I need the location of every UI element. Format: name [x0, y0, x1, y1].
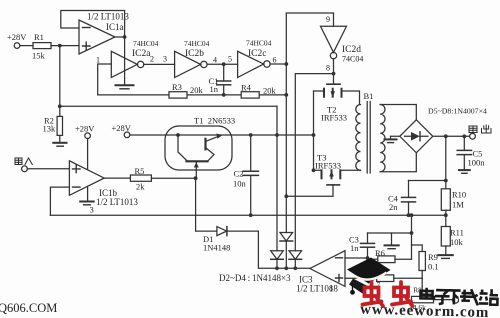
node C1 top junction — [222, 62, 226, 66]
wire pin8 left and down (to D4) — [295, 74, 333, 251]
char zhan — [479, 289, 498, 305]
wire T2 gate lead — [333, 74, 335, 84]
wire branch vertical — [411, 215, 413, 259]
node pin6 junction — [284, 62, 288, 66]
char zi — [435, 290, 450, 304]
node C5 top junction — [462, 134, 466, 138]
ground mid-rail under IC2a — [116, 84, 134, 86]
resistor R1 — [33, 43, 51, 49]
wire IC2c out to node — [270, 63, 286, 65]
char dian — [420, 288, 434, 299]
node D2 bottom junction — [275, 266, 279, 270]
wire IC1b ground pin — [87, 186, 89, 201]
svg-text:1M: 1M — [452, 200, 464, 210]
resistor R11 — [445, 215, 447, 226]
svg-text:2k: 2k — [136, 182, 145, 192]
wire R8 to terminal — [434, 299, 453, 301]
label output (CJK drawn) — [469, 125, 491, 133]
svg-text:100n: 100n — [468, 158, 486, 168]
svg-text:20k: 20k — [263, 86, 277, 96]
transistor T1 internals — [178, 134, 223, 179]
svg-text:IRF533: IRF533 — [315, 161, 341, 171]
wire R5 to T1 emitter node — [151, 177, 195, 179]
svg-text:0.1: 0.1 — [428, 262, 439, 272]
svg-text:R9: R9 — [428, 252, 438, 262]
svg-text:+28V: +28V — [7, 32, 27, 42]
wire +28V to R1 — [20, 45, 33, 47]
svg-text:IC2b: IC2b — [185, 49, 204, 59]
op-amp U IC1a — [79, 20, 115, 54]
svg-text:R3: R3 — [172, 82, 182, 92]
capacitor C4 — [402, 181, 446, 216]
wire IC3 - input to C3/R6 node — [345, 257, 368, 259]
node C2 top junction — [249, 133, 253, 137]
wire R10 column — [445, 136, 447, 189]
wire D2 column (from +28 rail area down) — [276, 106, 278, 251]
svg-text:8: 8 — [329, 284, 333, 293]
watermark text dianzixiazaizhan (CJK drawn strokes) — [420, 288, 498, 306]
resistor R2 — [57, 116, 62, 135]
terminal +28V IC1b supply — [85, 133, 91, 139]
wire bridge output to terminal — [433, 135, 470, 137]
transistor Q T2 IRF533 — [314, 84, 360, 104]
wire R1 to IC1a + input — [51, 45, 79, 47]
inverter U IC2a — [111, 51, 144, 77]
wire input to IC1b + — [27, 168, 69, 170]
svg-text:3: 3 — [90, 205, 94, 215]
wire +28V rail to T2/T3 frame — [130, 134, 314, 136]
svg-text:1N4148: 1N4148 — [203, 243, 230, 253]
transistor Q T3 IRF533 — [286, 170, 360, 196]
wire secondary bottom to bridge — [380, 153, 416, 172]
resistor R6 — [368, 258, 378, 260]
svg-text:74HC04: 74HC04 — [246, 39, 272, 48]
wire D1 down to bottom rail — [258, 231, 310, 268]
op-amp U IC1b — [69, 161, 104, 196]
node frame +28V rail junction — [312, 133, 316, 137]
svg-text:D5~D8:1N4007×4: D5~D8:1N4007×4 — [428, 107, 487, 116]
node D2 column / +28 rail junction — [275, 133, 279, 137]
wire R11 to ground — [445, 246, 447, 255]
wire D3 column down from pin6 node — [285, 64, 287, 233]
node R1/R2 junction — [58, 44, 62, 48]
svg-text:+28V: +28V — [112, 123, 132, 133]
ground under R2 — [53, 142, 66, 144]
transformer B1 primary winding — [356, 105, 361, 171]
svg-text:74HC04: 74HC04 — [133, 39, 159, 48]
ground at bridge left — [391, 136, 400, 139]
svg-text:20k: 20k — [190, 85, 204, 95]
svg-text:+28V: +28V — [75, 124, 95, 134]
svg-text:6: 6 — [273, 56, 277, 65]
wire R2 to ground — [59, 135, 61, 142]
resistor R7 — [377, 275, 394, 282]
resistor R8 — [412, 296, 434, 302]
svg-text:9: 9 — [326, 15, 330, 24]
wire long mid rail (IC1b feedback to R10 column) — [50, 214, 445, 216]
wire junction down to R2 — [59, 46, 61, 117]
svg-text:13k: 13k — [43, 124, 57, 134]
resistor R4 — [241, 92, 259, 98]
node R10 column top junction — [444, 134, 448, 138]
svg-text:10n: 10n — [233, 179, 247, 189]
resistor R5 — [130, 175, 151, 181]
svg-text:B1: B1 — [364, 91, 374, 101]
svg-text:R1: R1 — [34, 32, 44, 42]
svg-text:D2~D4 : 1N4148×3: D2~D4 : 1N4148×3 — [219, 273, 291, 283]
svg-text:IC2c: IC2c — [248, 49, 266, 59]
capacitor C2 — [243, 135, 258, 215]
svg-text:IC2a: IC2a — [132, 49, 151, 59]
terminal input — [22, 166, 28, 172]
ground under R11 — [438, 254, 453, 256]
label input (CJK drawn) — [15, 158, 32, 165]
node frame T3 junction — [312, 168, 316, 172]
node C3/R6 left junction — [366, 256, 370, 260]
svg-text:5: 5 — [228, 55, 232, 64]
transformer B1 core — [367, 102, 370, 174]
svg-text:C2: C2 — [234, 169, 244, 179]
node C1 bottom junction — [222, 93, 226, 97]
char xia — [448, 290, 461, 304]
wire IC3 + input to R7 — [345, 277, 377, 279]
diode bridge D5-D8 — [400, 120, 433, 153]
resistor R3 — [169, 92, 187, 98]
svg-text:15k: 15k — [32, 51, 46, 61]
svg-text:R11: R11 — [450, 228, 464, 238]
wire oscillator feedback rail — [98, 94, 287, 96]
transformer B1 secondary winding — [380, 105, 385, 172]
transistor Q T1 (Darlington outline) — [165, 126, 232, 170]
wire IC1a feedback loop — [61, 11, 125, 38]
wire down to R8 row — [421, 278, 423, 299]
svg-text:1n: 1n — [350, 243, 359, 253]
diode D4 — [289, 251, 302, 268]
resistor R10 — [441, 189, 450, 211]
svg-text:R10: R10 — [452, 190, 466, 200]
svg-text:1n: 1n — [210, 84, 219, 94]
inverter U IC2d (points down) — [321, 26, 347, 59]
svg-text:T1 2N6533: T1 2N6533 — [194, 116, 235, 126]
capacitor C3 — [361, 233, 375, 258]
ground stub on C3 rail — [391, 233, 393, 245]
terminal +28V T1 rail — [124, 132, 130, 138]
node R2 / rail junction — [58, 104, 62, 108]
node R10/R11 rail junction — [444, 213, 448, 217]
svg-text:74HC04: 74HC04 — [184, 39, 210, 48]
wire IC1a output down to mid-rail ground — [124, 37, 126, 85]
wire common source frame T2/T3 — [313, 91, 315, 170]
wire pin6 node up and over to IC2d input — [286, 13, 333, 64]
svg-text:1/2 LT1013: 1/2 LT1013 — [96, 197, 138, 207]
node C4 top tap junction — [444, 179, 448, 183]
svg-text:74C04: 74C04 — [342, 55, 363, 64]
svg-text:IC1a: IC1a — [106, 22, 124, 32]
capacitor C5 — [457, 136, 471, 173]
wire IC2d output to pin8 node — [333, 59, 335, 74]
svg-text:2: 2 — [150, 55, 154, 64]
capacitor C1 — [217, 64, 231, 95]
svg-text:IRF533: IRF533 — [321, 113, 347, 123]
svg-text:3: 3 — [163, 55, 167, 64]
node C2 bottom junction — [249, 213, 253, 217]
node T1 rail junction — [176, 133, 180, 137]
op-amp U IC3 (points left) — [310, 251, 345, 287]
wire supply to IC1b — [87, 139, 89, 170]
svg-text:4: 4 — [213, 56, 217, 65]
node branch / C3 rail junction — [410, 231, 414, 235]
svg-text:8: 8 — [326, 64, 330, 73]
svg-text:1: 1 — [96, 56, 100, 65]
watermark logo graduation cap — [347, 258, 391, 295]
svg-text:2n: 2n — [389, 202, 398, 212]
svg-text:R4: R4 — [241, 83, 252, 93]
terminal bottom right — [452, 297, 458, 303]
node C4 bottom junction — [407, 213, 411, 217]
svg-text:Q606.COM: Q606.COM — [0, 301, 57, 315]
svg-text:IC2d: IC2d — [342, 45, 361, 55]
svg-text:R5: R5 — [135, 166, 145, 176]
wire IC2b out to IC2c in — [207, 63, 238, 65]
watermark text chong (red bug char 1) — [363, 282, 384, 306]
wire D1 branch — [196, 178, 217, 231]
node D4 bottom junction — [293, 266, 297, 270]
terminal +28V left — [14, 43, 20, 49]
node IC1a output junction — [123, 35, 127, 39]
svg-text:www.eeworm.com: www.eeworm.com — [360, 302, 490, 318]
wire IC2a out to IC2b in — [144, 63, 175, 65]
node R4 rail end junction — [284, 93, 288, 97]
wire IC2a input from oscillator rail — [98, 64, 112, 95]
terminal output — [470, 133, 476, 139]
wire C3 top rail to branch — [368, 232, 412, 234]
svg-text:R6: R6 — [375, 248, 385, 258]
node T3 gate / D3 column junction — [284, 194, 288, 198]
wire secondary top to bridge — [380, 105, 416, 120]
wire R10 to rail — [445, 210, 447, 215]
wire rail from R2 junction to D2 column — [60, 105, 277, 107]
inverter U IC2c — [238, 51, 270, 77]
watermark text chong (red bug char 2) — [392, 282, 413, 306]
ground under IC1b — [80, 201, 94, 203]
node branch junction — [410, 213, 414, 217]
node pin8 junction — [332, 72, 336, 76]
svg-text:1/2 LT1013: 1/2 LT1013 — [87, 12, 129, 22]
diode D2 — [271, 251, 284, 268]
node T1 emitter junction — [194, 176, 198, 180]
diode D1 1N4148 — [217, 227, 259, 236]
wire IC1b feedback to mid rail — [50, 187, 69, 215]
diode D3 — [280, 233, 293, 269]
wire IC1b out through R5 — [104, 177, 130, 179]
char zai — [460, 289, 478, 305]
svg-text:10k: 10k — [450, 237, 464, 247]
wire IC1a output stub — [115, 36, 125, 38]
inverter U IC2b — [175, 51, 207, 77]
resistor R9 — [412, 245, 423, 252]
node D3 bottom junction — [284, 266, 288, 270]
